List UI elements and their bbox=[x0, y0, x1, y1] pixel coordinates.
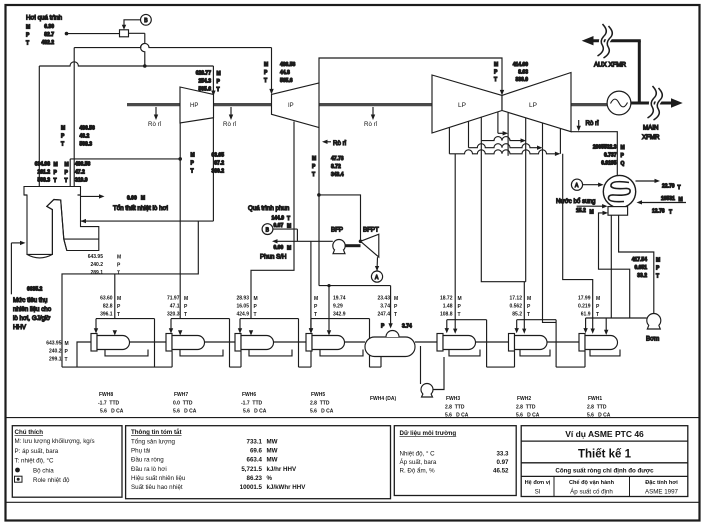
svg-text:63.60: 63.60 bbox=[100, 296, 113, 302]
wire fuel input riser bbox=[10, 243, 12, 294]
turbine LP right section bbox=[502, 73, 571, 132]
svg-text:T: nhiệt độ, °C: T: nhiệt độ, °C bbox=[15, 458, 54, 465]
svg-text:M: M bbox=[312, 156, 316, 162]
svg-text:0.9195: 0.9195 bbox=[601, 161, 617, 167]
turbine HP bbox=[180, 87, 214, 123]
svg-text:Hiệu suất nhiên liệu: Hiệu suất nhiên liệu bbox=[131, 475, 186, 482]
svg-text:87.2: 87.2 bbox=[214, 161, 224, 167]
wire main feeder arrow bbox=[671, 98, 683, 107]
svg-text:MAIN: MAIN bbox=[643, 125, 658, 132]
svg-text:T: T bbox=[65, 178, 68, 184]
svg-text:380.2: 380.2 bbox=[211, 169, 224, 175]
wire HP exhaust drop bbox=[212, 118, 214, 221]
wire FWH5 supply drop bbox=[328, 286, 330, 331]
svg-text:144.9: 144.9 bbox=[272, 216, 285, 222]
svg-text:T: T bbox=[264, 78, 267, 84]
wire generator output bus bbox=[630, 102, 672, 105]
wire IP inlet drop bbox=[271, 48, 273, 91]
svg-text:568.3: 568.3 bbox=[80, 142, 93, 148]
wire BFPT to A bbox=[376, 257, 379, 271]
svg-text:634.98: 634.98 bbox=[35, 162, 51, 168]
svg-text:Rò rỉ: Rò rỉ bbox=[148, 121, 162, 128]
svg-text:FWH2: FWH2 bbox=[517, 396, 531, 402]
svg-text:Tổng sản lượng: Tổng sản lượng bbox=[131, 439, 176, 446]
shaft left of HP bbox=[127, 103, 180, 106]
wire LP extraction drop L1 bbox=[448, 127, 450, 154]
svg-text:319.9: 319.9 bbox=[75, 178, 88, 184]
svg-text:0.97: 0.97 bbox=[496, 459, 509, 466]
svg-text:Chế độ vận hành: Chế độ vận hành bbox=[569, 479, 615, 486]
svg-text:T: T bbox=[314, 312, 317, 318]
wire crossover IP to LP bbox=[319, 58, 502, 92]
svg-text:M: M bbox=[54, 162, 58, 168]
svg-text:Phun S/H: Phun S/H bbox=[260, 254, 286, 261]
svg-text:M: M bbox=[61, 126, 65, 132]
svg-text:T: T bbox=[458, 312, 461, 318]
svg-text:47.2: 47.2 bbox=[75, 170, 85, 176]
svg-text:nhiên liệu cho: nhiên liệu cho bbox=[13, 306, 52, 313]
svg-text:47.1: 47.1 bbox=[170, 304, 180, 310]
wire pump discharge to FWH1 tubes bbox=[586, 317, 647, 319]
wire FWH8 supply drop bbox=[114, 274, 116, 319]
svg-text:82.8: 82.8 bbox=[103, 304, 113, 310]
svg-text:Công suất ròng chỉ định đo đượ: Công suất ròng chỉ định đo được bbox=[555, 468, 654, 475]
wire process steam tap drop bbox=[141, 33, 145, 66]
wire extraction branch to boiler bbox=[70, 158, 180, 160]
leak arrow IP-LP bbox=[372, 107, 374, 117]
svg-text:486.56: 486.56 bbox=[280, 62, 296, 68]
leak arrow left of HP bbox=[155, 107, 157, 117]
svg-text:T: T bbox=[54, 178, 57, 184]
wire makeup into hotwell top bbox=[577, 205, 604, 207]
svg-text:M: M bbox=[254, 296, 258, 302]
wire drop to FWH1 steam bbox=[563, 154, 593, 331]
wire extraction run 2 bbox=[481, 137, 522, 141]
svg-text:Nước bổ sung: Nước bổ sung bbox=[556, 198, 596, 205]
svg-text:T: T bbox=[394, 312, 397, 318]
svg-text:15.2: 15.2 bbox=[576, 208, 586, 214]
svg-text:336.0: 336.0 bbox=[515, 77, 528, 83]
svg-text:M: M bbox=[656, 258, 660, 264]
wire main steam riser bbox=[38, 66, 40, 187]
svg-text:Q: Q bbox=[621, 161, 625, 167]
feedwater heater FWH1 bbox=[586, 215, 612, 332]
svg-text:M: M bbox=[287, 246, 291, 252]
svg-text:18.72: 18.72 bbox=[440, 296, 453, 302]
PLACE_CONDENSER bbox=[449, 62, 624, 334]
svg-text:2.8 TTD: 2.8 TTD bbox=[445, 405, 465, 411]
svg-text:M: M bbox=[621, 145, 625, 151]
PLACE_LPEXTR bbox=[62, 215, 620, 397]
boiler duct inner line bbox=[64, 238, 99, 240]
pump BFP bbox=[333, 240, 345, 252]
valve pressure reducing bbox=[120, 30, 129, 37]
svg-text:T: T bbox=[184, 312, 187, 318]
svg-text:%: % bbox=[267, 475, 273, 482]
svg-text:Thông tin tóm tắt: Thông tin tóm tắt bbox=[131, 429, 182, 436]
svg-text:261.2: 261.2 bbox=[37, 170, 50, 176]
svg-text:0.737: 0.737 bbox=[604, 153, 617, 159]
svg-text:486.56: 486.56 bbox=[80, 126, 96, 132]
svg-text:HP: HP bbox=[190, 103, 198, 109]
svg-text:568.3: 568.3 bbox=[37, 178, 50, 184]
svg-text:33.2: 33.2 bbox=[637, 273, 647, 279]
svg-text:Áp suất cố định: Áp suất cố định bbox=[570, 489, 613, 496]
svg-text:19.74: 19.74 bbox=[333, 296, 346, 302]
svg-text:Nhiệt độ, ° C: Nhiệt độ, ° C bbox=[400, 451, 436, 458]
svg-text:5.6 D CA: 5.6 D CA bbox=[516, 413, 540, 419]
wire extraction run 3 bbox=[469, 144, 540, 148]
svg-text:343.4: 343.4 bbox=[331, 172, 344, 178]
svg-text:240.2: 240.2 bbox=[90, 262, 103, 268]
feedwater heater FWH7 bbox=[166, 334, 172, 352]
wire FWH8 supply from reheat line bbox=[62, 221, 198, 367]
wire aux feeder arrow bbox=[582, 36, 594, 45]
svg-text:2.8 TTD: 2.8 TTD bbox=[516, 405, 536, 411]
svg-text:Bơm: Bơm bbox=[646, 336, 659, 343]
svg-text:17.12: 17.12 bbox=[509, 296, 522, 302]
svg-text:46.2: 46.2 bbox=[80, 134, 90, 140]
svg-text:663.4: 663.4 bbox=[247, 457, 263, 464]
svg-text:Role nhiệt độ: Role nhiệt độ bbox=[33, 477, 70, 484]
shaft LP-generator bbox=[571, 103, 607, 106]
svg-text:396.1: 396.1 bbox=[100, 312, 113, 318]
svg-text:-1.7 TTD: -1.7 TTD bbox=[98, 401, 120, 407]
svg-text:Quá trình phun: Quá trình phun bbox=[248, 205, 290, 212]
svg-text:44.8: 44.8 bbox=[280, 70, 290, 76]
svg-text:FWH4 (DA): FWH4 (DA) bbox=[370, 396, 396, 402]
instrument circle A makeup bbox=[571, 179, 582, 190]
svg-text:33.3: 33.3 bbox=[496, 451, 509, 458]
pump DA booster bbox=[420, 346, 422, 384]
svg-text:643.95: 643.95 bbox=[88, 254, 104, 260]
svg-text:M: M bbox=[494, 62, 498, 68]
svg-text:69.6: 69.6 bbox=[250, 448, 263, 455]
wire extraction run 4 bbox=[449, 150, 557, 154]
svg-text:82.7: 82.7 bbox=[44, 32, 54, 38]
boiler furnace nose bbox=[47, 200, 67, 255]
wire condensate from hotwell bbox=[619, 215, 654, 313]
svg-text:0.562: 0.562 bbox=[509, 304, 522, 310]
svg-text:63.65: 63.65 bbox=[211, 153, 224, 159]
svg-text:482.2: 482.2 bbox=[41, 40, 54, 46]
svg-text:86.23: 86.23 bbox=[247, 475, 263, 482]
svg-text:Đặc tính hơi: Đặc tính hơi bbox=[645, 480, 678, 486]
svg-text:R. Độ ẩm, %: R. Độ ẩm, % bbox=[400, 468, 436, 475]
node HP extraction branch bbox=[178, 157, 182, 161]
svg-text:FWH3: FWH3 bbox=[446, 396, 460, 402]
svg-text:P: áp suất, bara: P: áp suất, bara bbox=[15, 448, 59, 455]
boiler top flange bbox=[24, 194, 81, 196]
wire cold reheat to boiler bbox=[81, 220, 214, 222]
svg-text:19531: 19531 bbox=[661, 196, 675, 202]
wire LP extraction drop L3 bbox=[480, 117, 482, 141]
table legend box bbox=[12, 426, 122, 498]
svg-text:XFMR: XFMR bbox=[642, 134, 660, 141]
feedwater heater FWH2 bbox=[517, 320, 585, 367]
svg-text:M: M bbox=[458, 296, 462, 302]
svg-text:BFP: BFP bbox=[331, 227, 343, 234]
frame tables bottom line bbox=[7, 501, 700, 503]
wire feedwater FWH8 exit bbox=[77, 342, 91, 367]
turbine BFPT bbox=[361, 234, 379, 257]
svg-text:T: T bbox=[217, 87, 220, 93]
svg-text:Suất tiêu hao nhiệt: Suất tiêu hao nhiệt bbox=[131, 484, 183, 491]
svg-text:Dữ liệu môi trường: Dữ liệu môi trường bbox=[400, 430, 457, 437]
svg-text:240.2: 240.2 bbox=[49, 349, 62, 355]
wire main steam horizontal to HP bbox=[39, 62, 213, 66]
condenser shell bbox=[603, 175, 635, 207]
svg-text:5.6 D CA: 5.6 D CA bbox=[173, 409, 197, 415]
svg-text:LP: LP bbox=[529, 102, 537, 109]
svg-text:T: T bbox=[117, 271, 120, 277]
svg-text:23.43: 23.43 bbox=[377, 296, 390, 302]
svg-text:5,721.5: 5,721.5 bbox=[241, 466, 262, 473]
svg-text:ASME 1997: ASME 1997 bbox=[645, 489, 679, 496]
svg-text:289.1: 289.1 bbox=[90, 270, 103, 276]
wire drop to FWH2 steam bbox=[481, 141, 525, 331]
wire CW inlet bbox=[640, 202, 686, 204]
svg-text:5.6 D CA: 5.6 D CA bbox=[243, 409, 267, 415]
svg-text:M: M bbox=[314, 296, 318, 302]
shaft BFP-BFPT bbox=[345, 244, 360, 247]
wire LP extraction drop L4 bbox=[497, 112, 499, 134]
node IP exhaust branch bbox=[317, 193, 321, 197]
shaft HP-IP bbox=[214, 103, 272, 106]
wire feedwater into boiler bbox=[11, 242, 22, 244]
svg-text:Mức tiêu thụ: Mức tiêu thụ bbox=[13, 297, 48, 304]
svg-text:FWH5: FWH5 bbox=[311, 392, 325, 398]
svg-text:17.99: 17.99 bbox=[578, 296, 591, 302]
svg-text:247.4: 247.4 bbox=[377, 312, 390, 318]
svg-text:MW: MW bbox=[267, 448, 278, 455]
svg-text:M: M bbox=[527, 296, 531, 302]
svg-text:M: M bbox=[65, 162, 69, 168]
wire BFP discharge to FWH5 bbox=[310, 241, 312, 330]
wire HP inlet drop bbox=[212, 66, 214, 93]
svg-text:Rò rỉ: Rò rỉ bbox=[223, 121, 237, 128]
svg-text:0.219: 0.219 bbox=[578, 304, 591, 310]
wire valve outlet to left bbox=[67, 33, 120, 35]
svg-text:M: M bbox=[287, 224, 291, 230]
svg-text:628.77: 628.77 bbox=[196, 71, 212, 77]
wire BFP suction line bbox=[276, 240, 333, 242]
transformer MAIN XFMR bbox=[648, 86, 657, 118]
svg-text:486.56: 486.56 bbox=[75, 162, 91, 168]
PLACE_LABELS bbox=[12, 426, 688, 499]
svg-text:0.051: 0.051 bbox=[634, 265, 647, 271]
svg-text:3.74: 3.74 bbox=[380, 304, 390, 310]
svg-text:T: T bbox=[65, 357, 68, 363]
wire LP extraction drop R4 bbox=[559, 129, 561, 154]
svg-text:FWH1: FWH1 bbox=[588, 396, 602, 402]
svg-text:8.63: 8.63 bbox=[518, 70, 528, 76]
node main steam tap junction bbox=[143, 64, 147, 68]
wire LP extraction drop R1 bbox=[507, 113, 509, 156]
turbine LP left section bbox=[432, 75, 502, 133]
svg-text:Áp suất, bara: Áp suất, bara bbox=[400, 459, 437, 466]
svg-text:Hệ đơn vị: Hệ đơn vị bbox=[525, 480, 551, 486]
svg-text:2905532.3: 2905532.3 bbox=[593, 145, 617, 151]
svg-text:Phụ tải: Phụ tải bbox=[131, 448, 150, 455]
wire LP extraction drop R3 bbox=[542, 123, 544, 148]
svg-text:71.97: 71.97 bbox=[167, 296, 180, 302]
PLACE_WIRES_TOP bbox=[582, 24, 683, 141]
svg-text:424.9: 424.9 bbox=[236, 312, 249, 318]
svg-text:320.3: 320.3 bbox=[167, 312, 180, 318]
svg-text:FWH7: FWH7 bbox=[174, 392, 188, 398]
svg-text:lò hơi, GJ/giờ: lò hơi, GJ/giờ bbox=[13, 315, 50, 322]
svg-text:M: M bbox=[65, 341, 69, 347]
svg-text:T: T bbox=[26, 41, 29, 47]
svg-text:M: M bbox=[590, 210, 594, 216]
svg-text:299.1: 299.1 bbox=[49, 357, 62, 363]
feedwater heater FWH3 bbox=[447, 320, 515, 367]
svg-text:565.6: 565.6 bbox=[198, 87, 211, 93]
pump Bom bbox=[647, 314, 661, 328]
svg-text:IP: IP bbox=[288, 103, 294, 109]
table title block bbox=[521, 426, 688, 497]
svg-text:2.8 TTD: 2.8 TTD bbox=[310, 401, 330, 407]
svg-text:1.48: 1.48 bbox=[443, 304, 453, 310]
svg-text:10001.5: 10001.5 bbox=[240, 484, 263, 491]
wire hot reheat horizontal to IP bbox=[74, 43, 271, 47]
svg-text:SI: SI bbox=[535, 489, 541, 496]
svg-text:8.72: 8.72 bbox=[331, 164, 341, 170]
svg-text:T: T bbox=[61, 142, 64, 148]
instrument circle B spray bbox=[262, 224, 273, 235]
svg-text:Rò rỉ: Rò rỉ bbox=[586, 120, 600, 127]
generator G1 bbox=[607, 91, 631, 115]
shaft IP-LP bbox=[319, 103, 432, 106]
svg-text:M: M bbox=[264, 62, 268, 68]
PLACE_HEATERS bbox=[35, 62, 383, 334]
svg-text:6.30: 6.30 bbox=[44, 24, 54, 30]
svg-text:9.29: 9.29 bbox=[333, 304, 343, 310]
svg-text:0.0 TTD: 0.0 TTD bbox=[173, 401, 193, 407]
svg-text:M: M bbox=[191, 153, 195, 159]
wire BFPT steam supply bbox=[319, 195, 361, 241]
svg-text:LP: LP bbox=[458, 102, 466, 109]
leak arrow above condenser duct bbox=[578, 120, 580, 128]
svg-text:5.6 D CA: 5.6 D CA bbox=[310, 409, 334, 415]
svg-text:Chú thích: Chú thích bbox=[15, 429, 44, 436]
svg-text:12.78: 12.78 bbox=[652, 209, 665, 215]
svg-text:kJ/kWhr HHV: kJ/kWhr HHV bbox=[267, 484, 307, 491]
svg-text:22.79: 22.79 bbox=[662, 184, 675, 190]
svg-text:5.6 D CA: 5.6 D CA bbox=[445, 413, 469, 419]
svg-text:Thiết kế 1: Thiết kế 1 bbox=[578, 449, 632, 461]
svg-text:2.8 TTD: 2.8 TTD bbox=[587, 405, 607, 411]
PLACE_TURBINES bbox=[24, 187, 99, 255]
svg-text:5.6 D CA: 5.6 D CA bbox=[587, 413, 611, 419]
svg-text:M: lưu lượng khốilượng, kg/s: M: lưu lượng khốilượng, kg/s bbox=[15, 438, 95, 445]
svg-text:6635.2: 6635.2 bbox=[27, 287, 43, 293]
leak arrow IP exhaust bbox=[326, 141, 332, 143]
wire IP extraction to FWH6 bbox=[251, 122, 294, 319]
wire IP exhaust drop bbox=[318, 128, 320, 286]
feedwater heater FWH5 bbox=[306, 334, 312, 352]
svg-text:0.00 M: 0.00 M bbox=[127, 195, 145, 201]
wire LP extraction drop L2 bbox=[468, 121, 470, 148]
svg-text:FWH8: FWH8 bbox=[99, 392, 113, 398]
svg-text:T: T bbox=[527, 312, 530, 318]
svg-text:85.2: 85.2 bbox=[512, 312, 522, 318]
svg-text:Đầu ra ròng: Đầu ra ròng bbox=[131, 457, 164, 464]
svg-text:M: M bbox=[596, 296, 600, 302]
table summary box bbox=[126, 426, 391, 499]
svg-text:643.95: 643.95 bbox=[46, 341, 62, 347]
svg-text:Bộ chia: Bộ chia bbox=[33, 467, 54, 474]
svg-text:0.07: 0.07 bbox=[274, 223, 284, 229]
svg-text:16.05: 16.05 bbox=[236, 304, 249, 310]
svg-text:M: M bbox=[26, 25, 30, 31]
svg-text:T: T bbox=[117, 312, 120, 318]
wire DA steam inlet bbox=[319, 286, 391, 325]
svg-text:BFPT: BFPT bbox=[363, 227, 379, 234]
wire hot reheat riser bbox=[73, 48, 75, 187]
svg-text:T: T bbox=[254, 312, 257, 318]
svg-text:414.60: 414.60 bbox=[513, 62, 529, 68]
wire feedwater segments bbox=[130, 341, 580, 343]
condenser coil bbox=[608, 182, 630, 202]
svg-text:108.8: 108.8 bbox=[440, 312, 453, 318]
svg-text:T: T bbox=[596, 312, 599, 318]
svg-text:T: T bbox=[678, 185, 681, 191]
boiler bottom dished head bbox=[27, 254, 52, 258]
svg-text:T: T bbox=[669, 210, 672, 216]
svg-text:HHV: HHV bbox=[13, 324, 27, 331]
turbine IP bbox=[272, 83, 320, 128]
svg-text:46.52: 46.52 bbox=[493, 468, 509, 475]
svg-text:Hơi quá trình: Hơi quá trình bbox=[26, 15, 63, 22]
wire HP extraction drop bbox=[179, 123, 181, 319]
svg-text:28.93: 28.93 bbox=[236, 296, 249, 302]
wire spray tap bbox=[273, 229, 298, 241]
svg-text:M: M bbox=[184, 296, 188, 302]
wire left loop bottom bbox=[62, 366, 155, 368]
svg-text:5.6 D CA: 5.6 D CA bbox=[100, 409, 124, 415]
svg-text:Tổn thất nhiệt lò hơi: Tổn thất nhiệt lò hơi bbox=[113, 205, 168, 212]
svg-text:AUX XFMR: AUX XFMR bbox=[594, 62, 627, 69]
svg-text:FWH6: FWH6 bbox=[242, 392, 256, 398]
svg-text:T: T bbox=[494, 77, 497, 83]
wire boiler heat loss arrow bbox=[81, 195, 102, 197]
PLACE_BOILER bbox=[26, 14, 504, 367]
svg-text:342.9: 342.9 bbox=[333, 312, 346, 318]
svg-text:kJ/hr HHV: kJ/hr HHV bbox=[267, 466, 297, 473]
condenser hotwell bbox=[608, 207, 628, 216]
leak arrow HP-IP bbox=[230, 107, 232, 117]
svg-text:Rò rỉ: Rò rỉ bbox=[333, 140, 347, 147]
wire makeup to condenser bbox=[583, 184, 600, 186]
svg-text:47.73: 47.73 bbox=[331, 156, 344, 162]
svg-text:417.54: 417.54 bbox=[632, 257, 648, 263]
frame diagram bottom line bbox=[7, 417, 700, 419]
svg-text:Ví dụ ASME PTC 46: Ví dụ ASME PTC 46 bbox=[565, 429, 644, 439]
wire LP extraction drop R2 bbox=[525, 118, 527, 282]
svg-text:565.6: 565.6 bbox=[280, 78, 293, 84]
wire extraction run 1 bbox=[498, 132, 505, 134]
svg-text:T: T bbox=[191, 169, 194, 175]
svg-text:MW: MW bbox=[267, 457, 278, 464]
wire B to valve bbox=[124, 20, 141, 27]
svg-text:3.74: 3.74 bbox=[402, 324, 412, 330]
svg-text:T: T bbox=[287, 216, 290, 222]
svg-text:T: T bbox=[312, 172, 315, 178]
svg-text:-1.7 TTD: -1.7 TTD bbox=[241, 401, 263, 407]
wire LP exhaust to condenser bbox=[571, 132, 617, 176]
